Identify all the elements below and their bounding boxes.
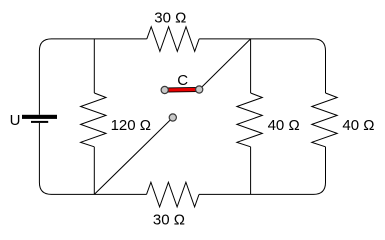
wire: middle 40ohm bottom lead (250, 147, 252, 195)
node: open terminal on lower diagonal (169, 114, 176, 121)
svg-text:U: U (10, 112, 21, 129)
wire: outer loop top-left segment (battery top to top-left corner to top resistor) (39, 39, 146, 115)
svg-text:40 Ω: 40 Ω (268, 117, 300, 134)
resistor R_right 40ohm (right border vertical zigzag) (312, 93, 337, 147)
resistor R2 40ohm middle (vertical zigzag) (237, 93, 262, 147)
node: switch right terminal (196, 86, 203, 93)
wire: top-right segment to corner down to right resistor (199, 39, 325, 93)
svg-text:30 Ω: 30 Ω (154, 9, 186, 26)
svg-text:30 Ω: 30 Ω (153, 211, 185, 228)
wire: right-bottom segment, corner, bottom to bottom resistor (199, 147, 326, 195)
resistor R_top 30ohm (top horizontal zigzag) (147, 27, 199, 52)
resistor R1 120ohm (vertical zigzag) (81, 93, 106, 147)
wire: 120ohm bottom lead (93, 147, 95, 195)
svg-text:C: C (177, 72, 188, 89)
node: switch left terminal (161, 86, 168, 93)
battery U (voltage source, two plates on left border) (22, 115, 57, 123)
resistor R_bot 30ohm (bottom horizontal zigzag) (147, 182, 200, 207)
switch C blade (red bar) (166, 87, 199, 93)
wire: bottom-left segment, corner, up to battery bottom (39, 123, 146, 194)
wire: middle 40ohm top lead (250, 39, 252, 93)
wire: 120ohm top lead (93, 39, 95, 93)
wire: diagonal from bottom-left junction to open terminal (94, 118, 173, 195)
wire: diagonal from switch right terminal to top junction (199, 39, 250, 90)
svg-text:40 Ω: 40 Ω (342, 117, 374, 134)
svg-text:120 Ω: 120 Ω (111, 117, 151, 134)
